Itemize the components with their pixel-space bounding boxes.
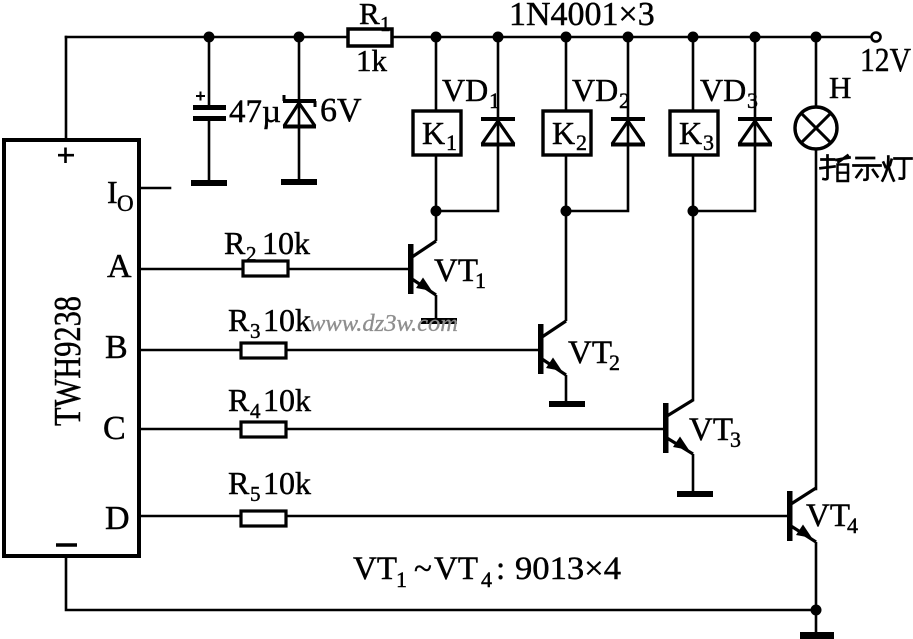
svg-text:1: 1 [475, 268, 486, 293]
junction node on rail at VD1 [493, 32, 504, 43]
transistor VT1 [408, 212, 457, 324]
svg-text:VT: VT [568, 335, 612, 371]
svg-text:4: 4 [481, 567, 492, 592]
wire left drop to IC plus [65, 37, 68, 142]
relay K2 [543, 111, 591, 155]
svg-text:K: K [552, 115, 575, 151]
svg-text:A: A [107, 248, 132, 285]
svg-text:D: D [105, 500, 130, 537]
junction node on rail at K3 [688, 32, 699, 43]
wire lamp branch [815, 37, 818, 108]
diode VD1 [481, 119, 515, 145]
IC U1 TWH9238 box [4, 140, 139, 556]
junction node on rail at VD2 [623, 32, 634, 43]
wire pin B to VT2 base [140, 349, 538, 352]
transistor VT3 [663, 400, 713, 497]
svg-text:R: R [224, 225, 246, 261]
svg-text:K: K [679, 115, 702, 151]
svg-text:10k: 10k [263, 465, 311, 501]
wire VD2 branch [566, 37, 628, 211]
wire VT4 emitter to ground [815, 610, 818, 632]
wire zener branch [298, 37, 301, 181]
zener ground [281, 179, 317, 185]
svg-text:~: ~ [414, 551, 432, 587]
svg-text:4: 4 [847, 513, 858, 538]
capacitor plus mark [196, 92, 205, 101]
svg-text:10k: 10k [262, 225, 310, 261]
relay K1 [413, 111, 461, 155]
junction node on rail at K1 [431, 32, 442, 43]
wire K2 branch [565, 37, 568, 211]
lamp H [795, 107, 837, 149]
svg-text:2: 2 [246, 242, 257, 266]
resistor R3 [241, 343, 286, 358]
wire top rail [66, 36, 871, 39]
svg-text:TWH9238: TWH9238 [47, 296, 89, 426]
wire pin C to VT3 base [140, 428, 663, 431]
svg-text:R: R [228, 302, 250, 338]
svg-text:10k: 10k [263, 302, 311, 338]
svg-text:B: B [105, 329, 128, 366]
node K1/VD1 to VT1 collector [431, 206, 442, 217]
svg-text:4: 4 [250, 399, 261, 423]
svg-text:12V: 12V [860, 42, 911, 79]
svg-text:47µ: 47µ [229, 94, 281, 130]
resistor R4 [241, 422, 286, 437]
svg-text::: : [496, 551, 505, 587]
svg-text:VD: VD [700, 72, 746, 108]
svg-text:2: 2 [609, 350, 620, 375]
resistor R5 [241, 511, 286, 526]
svg-text:1: 1 [396, 567, 407, 592]
svg-text:R: R [228, 382, 250, 418]
junction node on rail at K2 [561, 32, 572, 43]
svg-text:H: H [829, 70, 851, 105]
wire K3 branch [692, 37, 695, 400]
svg-text:6V: 6V [320, 92, 362, 129]
junction node on rail at VD3 [750, 32, 761, 43]
svg-text:VT: VT [434, 551, 478, 587]
svg-text:VT: VT [434, 253, 478, 289]
terminal 12V open circle [872, 33, 881, 42]
svg-text:1: 1 [489, 88, 500, 113]
diode VD2 [611, 119, 645, 145]
svg-text:VT: VT [689, 412, 733, 448]
svg-text:O: O [117, 191, 134, 216]
capacitor ground [191, 180, 227, 186]
node K2/VD2 to VT2 collector [561, 206, 572, 217]
IC pin plus label [58, 148, 74, 164]
node VT4 emitter to bottom rail [811, 605, 822, 616]
wire VD3 branch [693, 37, 755, 211]
node K3/VD3 to VT3 collector [688, 206, 699, 217]
svg-text:R: R [228, 465, 250, 501]
label indicator lamp CJK zhi [821, 156, 850, 182]
resistor R2 [243, 261, 288, 276]
junction node on rail at lamp [811, 32, 822, 43]
svg-text:5: 5 [250, 482, 261, 506]
svg-text:3: 3 [730, 427, 741, 452]
svg-text:www.dz3w.com: www.dz3w.com [309, 311, 458, 337]
svg-text:3: 3 [747, 88, 758, 113]
svg-text:1: 1 [446, 130, 457, 155]
svg-text:9013×4: 9013×4 [515, 551, 621, 587]
resistor R1 [348, 29, 392, 46]
label indicator lamp CJK shi [854, 158, 881, 180]
junction node on rail at capacitor [204, 32, 215, 43]
svg-text:2: 2 [619, 88, 630, 113]
svg-text:3: 3 [703, 130, 714, 155]
svg-text:K: K [422, 115, 445, 151]
junction node on rail at zener [294, 32, 305, 43]
wire pin Io stub [140, 187, 170, 190]
svg-text:VD: VD [572, 72, 618, 108]
wire K1 branch [435, 37, 438, 211]
diode VD3 [738, 119, 772, 145]
svg-text:VT: VT [353, 551, 397, 587]
svg-text:10k: 10k [263, 382, 311, 418]
wire capacitor to ground [208, 120, 211, 181]
zener diode VZ 6V [283, 95, 316, 127]
IC pin minus label [56, 543, 77, 546]
svg-text:C: C [103, 410, 126, 447]
svg-text:1k: 1k [356, 43, 388, 78]
wire lamp to VT4 collector [815, 149, 818, 489]
svg-text:VD: VD [442, 72, 488, 108]
wire IC minus to bottom rail [66, 556, 816, 610]
transistor VT4 [787, 488, 816, 610]
wire capacitor branch [208, 37, 211, 107]
wire pin D to VT4 base [140, 515, 787, 518]
svg-text:1N4001×3: 1N4001×3 [509, 0, 655, 33]
wire VD1 branch [436, 37, 498, 211]
label indicator lamp CJK deng [883, 157, 912, 181]
ground under VT4 [800, 632, 834, 639]
svg-text:R: R [359, 0, 380, 31]
wire pin A to VT1 base [140, 268, 408, 271]
svg-text:1: 1 [380, 12, 391, 36]
capacitor C1 47u plates [193, 105, 226, 110]
relay K3 [670, 111, 718, 155]
svg-text:VT: VT [806, 498, 850, 534]
svg-text:2: 2 [576, 130, 587, 155]
svg-text:3: 3 [250, 319, 261, 343]
transistor VT2 [538, 212, 585, 407]
